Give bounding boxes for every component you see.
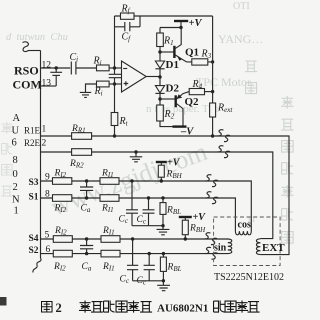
svg-text:RI1: RI1 bbox=[102, 226, 115, 237]
svg-text:EXT: EXT bbox=[262, 242, 285, 254]
svg-text:Ri: Ri bbox=[93, 56, 102, 68]
svg-text:Q1: Q1 bbox=[185, 47, 199, 59]
-V power bar bbox=[173, 125, 187, 127]
capacitor Ca (sin pair) bbox=[80, 237, 93, 255]
row R2E pin2 wire bbox=[41, 152, 273, 239]
resistor Rt riser bbox=[114, 84, 116, 113]
transistor Q2 bbox=[160, 92, 189, 127]
node base Q2 bbox=[158, 97, 161, 100]
+V power bar (top) bbox=[160, 21, 188, 28]
svg-text:cos: cos bbox=[238, 220, 251, 231]
resistor RBL (sin) bbox=[160, 252, 166, 281]
capacitor Ca (cos pair) bbox=[80, 179, 93, 199]
break mark row2 bbox=[218, 146, 231, 158]
resistor RR1 bbox=[72, 133, 92, 140]
node rail to row1 bbox=[211, 134, 214, 137]
svg-text:Ca: Ca bbox=[81, 204, 91, 215]
svg-text:D1: D1 bbox=[166, 59, 179, 71]
resistor RI1 (S2) bbox=[101, 250, 120, 257]
winding EXT bbox=[256, 239, 260, 255]
svg-text:RI1: RI1 bbox=[101, 204, 114, 215]
capacitor Cc (S3) bbox=[126, 179, 138, 225]
row S1 pin8 wire bbox=[41, 198, 236, 231]
resistor RI2 (S4) bbox=[53, 236, 72, 243]
node +V stem bbox=[179, 26, 182, 29]
svg-text:8: 8 bbox=[45, 189, 50, 199]
break mark S1 bbox=[206, 192, 219, 204]
svg-text:9: 9 bbox=[45, 173, 50, 183]
svg-text:5: 5 bbox=[45, 230, 50, 240]
capacitor Cc (S1) bbox=[143, 196, 155, 225]
svg-text:Ci: Ci bbox=[70, 52, 79, 64]
node base Q1 bbox=[158, 50, 161, 53]
node R3 to rail bbox=[211, 60, 214, 63]
break mark S4 bbox=[205, 233, 218, 245]
node op-amp output to diodes bbox=[158, 75, 161, 78]
bus top stub wire bbox=[28, 50, 41, 52]
resistor Ri (input, inverting) bbox=[97, 65, 122, 71]
svg-text:Rext: Rext bbox=[217, 103, 233, 115]
ground for non-inverting resistor bbox=[80, 84, 97, 97]
capacitor Cf bbox=[115, 16, 141, 31]
svg-text:1: 1 bbox=[42, 125, 47, 135]
resistor R4 bbox=[189, 89, 212, 95]
svg-text:R2E: R2E bbox=[24, 138, 41, 148]
dashed boundary box bbox=[214, 217, 281, 266]
svg-text:2: 2 bbox=[56, 301, 62, 315]
svg-text:COM: COM bbox=[13, 78, 42, 92]
svg-text:RBL: RBL bbox=[166, 206, 181, 217]
resistor RR2 bbox=[72, 149, 92, 156]
node non-inverting input bbox=[113, 82, 116, 85]
svg-text:RI2: RI2 bbox=[54, 204, 67, 215]
break mark S2 bbox=[205, 247, 218, 259]
resistor Ri (non-inverting to ground) bbox=[97, 81, 122, 87]
svg-text:+V: +V bbox=[193, 212, 207, 223]
svg-text:S4: S4 bbox=[29, 234, 39, 244]
caption fake CJK text + AU6802N1 bbox=[79, 301, 152, 313]
row S3 pin9 wire bbox=[41, 181, 252, 231]
svg-text:2: 2 bbox=[13, 182, 18, 193]
svg-text:RR1: RR1 bbox=[71, 124, 86, 135]
feedback riser wire bbox=[114, 16, 116, 68]
resistor RI1 (S3) bbox=[100, 178, 119, 185]
capacitor between RSO and COM lines bbox=[50, 68, 62, 86]
svg-text:RBH: RBH bbox=[189, 224, 206, 235]
node Rt to row1 bbox=[113, 134, 116, 137]
capacitor across op-amp inputs bbox=[109, 68, 122, 84]
capacitor Cc (S4) bbox=[127, 237, 138, 280]
op-amp U1 bbox=[122, 61, 147, 92]
svg-text:sin: sin bbox=[214, 243, 227, 254]
svg-text:RI1: RI1 bbox=[101, 169, 114, 180]
svg-text:RBL: RBL bbox=[167, 263, 182, 274]
resistor R3 bbox=[187, 59, 213, 65]
feedback top wire to output rail bbox=[140, 15, 213, 17]
bottom-left dark page mark bbox=[0, 297, 7, 306]
svg-text:RI1: RI1 bbox=[102, 262, 115, 273]
svg-text:Cf: Cf bbox=[122, 32, 132, 44]
ground on row2 bbox=[130, 150, 142, 162]
break mark S3 bbox=[206, 175, 219, 187]
svg-text:R1E: R1E bbox=[24, 126, 41, 136]
svg-text:RR2: RR2 bbox=[69, 159, 84, 170]
svg-text:Ca: Ca bbox=[82, 262, 92, 273]
ground rail (sin) bbox=[133, 279, 170, 291]
svg-text:Rt: Rt bbox=[119, 116, 129, 128]
resistor Rt bbox=[111, 113, 118, 137]
resistor R2 bbox=[157, 105, 183, 127]
resistor RBH (cos) bbox=[156, 162, 167, 183]
svg-text:Q2: Q2 bbox=[185, 96, 200, 108]
winding cos bbox=[235, 231, 251, 235]
svg-text:U: U bbox=[12, 126, 20, 137]
svg-text:D2: D2 bbox=[166, 83, 180, 95]
pin 12 wire (RSO) bbox=[41, 67, 71, 69]
resistor RI2 (S1) bbox=[53, 195, 72, 202]
svg-text:Rf: Rf bbox=[121, 4, 131, 16]
ground rail (cos) bbox=[132, 224, 169, 235]
svg-text:+V: +V bbox=[167, 158, 181, 169]
svg-text:RI2: RI2 bbox=[54, 169, 67, 180]
diode D1 bbox=[155, 61, 164, 77]
svg-text:A: A bbox=[13, 113, 21, 124]
transistor Q1 bbox=[160, 28, 187, 62]
resistor RBH (sin) bbox=[179, 217, 192, 241]
resistor RI1 (S4) bbox=[101, 236, 120, 243]
svg-text:Cc: Cc bbox=[119, 215, 129, 226]
resistor RI1 (S1) bbox=[100, 195, 119, 202]
resistor RI2 (S2) bbox=[53, 250, 72, 257]
pin 13 wire (COM) bbox=[41, 85, 57, 87]
resistor Rf bbox=[115, 13, 141, 19]
svg-text:RI2: RI2 bbox=[53, 262, 66, 273]
winding sin bbox=[228, 239, 232, 254]
svg-text:8: 8 bbox=[13, 155, 18, 166]
resistor RBL (cos) bbox=[160, 196, 166, 225]
svg-text:S1: S1 bbox=[29, 193, 39, 203]
svg-text:2: 2 bbox=[42, 139, 47, 149]
svg-text:1: 1 bbox=[14, 206, 19, 217]
output rail wire bbox=[212, 16, 214, 103]
resistor Rext bbox=[210, 103, 216, 136]
svg-text:S2: S2 bbox=[29, 246, 39, 256]
svg-text:TS2225N12E102: TS2225N12E102 bbox=[214, 272, 284, 283]
caption figure number (fake CJK for 图) bbox=[42, 302, 52, 313]
row R1E pin1 wire bbox=[41, 136, 290, 255]
break mark row1 bbox=[218, 130, 231, 142]
resistor RI2 (S3) bbox=[53, 178, 72, 185]
row S2 pin6 wire bbox=[41, 253, 229, 255]
capacitor Ci bbox=[71, 62, 96, 75]
svg-text:+V: +V bbox=[189, 18, 203, 29]
diode D2 bbox=[155, 77, 164, 105]
svg-text:RBH: RBH bbox=[166, 170, 183, 181]
node R4 to rail bbox=[211, 90, 214, 93]
svg-text:RI2: RI2 bbox=[54, 226, 67, 237]
svg-text:6: 6 bbox=[46, 245, 51, 255]
svg-text:AU6802N1: AU6802N1 bbox=[157, 303, 208, 315]
svg-text:TPC Motor: TPC Motor bbox=[196, 75, 251, 89]
left bus wire of AU6802N1 bbox=[40, 51, 42, 259]
svg-text:R1: R1 bbox=[163, 36, 174, 48]
svg-text:R3: R3 bbox=[201, 49, 212, 61]
resistor R1 bbox=[157, 28, 164, 62]
svg-text:Cc: Cc bbox=[120, 275, 130, 286]
svg-text:Cc: Cc bbox=[137, 215, 147, 226]
svg-text:d tutwun Chu: d tutwun Chu bbox=[6, 32, 68, 43]
svg-text:12: 12 bbox=[42, 60, 52, 70]
diagonal watermark bbox=[47, 137, 211, 222]
row S4 pin5 wire bbox=[41, 238, 229, 240]
node at pin12 / COM capacitor bbox=[55, 66, 58, 69]
svg-text:Ri: Ri bbox=[94, 86, 103, 98]
capacitor Cc (S2) bbox=[144, 252, 155, 281]
node inverting input / feedback bbox=[113, 66, 116, 69]
svg-text:OTI: OTI bbox=[233, 1, 250, 12]
bus top break squiggle bbox=[23, 42, 29, 52]
right vertical watermark column bbox=[1, 61, 294, 243]
svg-text:S3: S3 bbox=[29, 178, 39, 188]
op-amp output wire bbox=[146, 76, 160, 78]
svg-text:N: N bbox=[12, 195, 20, 206]
svg-text:0: 0 bbox=[13, 169, 18, 180]
svg-text:YANG…: YANG… bbox=[218, 32, 263, 46]
bus bottom break squiggle bbox=[33, 258, 41, 273]
svg-text:6: 6 bbox=[12, 138, 17, 149]
svg-text:13: 13 bbox=[42, 78, 52, 88]
svg-text:RSO: RSO bbox=[14, 64, 39, 78]
